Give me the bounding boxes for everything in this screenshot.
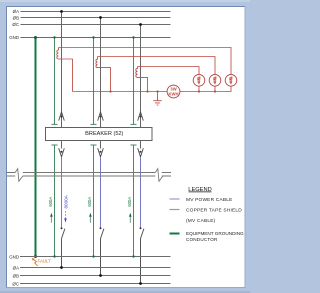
wire relay 1 drop (198, 86, 200, 92)
phase A conductor (upper) (61, 12, 63, 128)
cable termination T6 (below breaker) (138, 148, 144, 157)
svg-text:600A: 600A (127, 197, 132, 207)
legend equipment grounding conductor sample (170, 233, 180, 235)
svg-text:ØB: ØB (13, 15, 19, 20)
node main ground tap (34, 36, 37, 39)
cable termination T4 (below breaker) (59, 148, 65, 157)
svg-text:BREAKER (52): BREAKER (52) (85, 131, 123, 137)
svg-text:CONDUCTOR: CONDUCTOR (186, 237, 218, 242)
node relay 1 bus (198, 90, 200, 92)
meter M1 (kWh) (167, 85, 180, 98)
bus phase B (21, 17, 171, 19)
grounding conductor pair 1 (upper) (52, 38, 58, 125)
relay R1 (193, 75, 205, 87)
svg-text:ØA: ØA (13, 9, 19, 14)
bus GND bottom (20, 256, 171, 258)
grounding conductor pair 1 (lower) (52, 145, 58, 257)
CT shield coil 3 (136, 67, 138, 78)
CT shield coil 1 (57, 48, 59, 60)
svg-text:ØA: ØA (13, 265, 19, 270)
node shield ground tap (156, 90, 158, 92)
wire shield 2 bottom lead (98, 68, 111, 92)
switch S3 (141, 229, 144, 284)
svg-text:MV POWER CABLE: MV POWER CABLE (186, 197, 233, 203)
node main ground bottom (34, 255, 37, 258)
grounding conductor pair 3 (upper) (131, 38, 137, 125)
wire shield 2 top lead (98, 57, 216, 75)
ground shield (153, 92, 161, 106)
node phase C tap (139, 23, 142, 26)
bus phase B bottom (20, 275, 171, 277)
MV cable phase C (140, 157, 142, 227)
arrow ground continuation 3 (129, 213, 132, 223)
frame background (0, 0, 250, 293)
node phase C bottom (139, 282, 142, 285)
svg-text:8000A: 8000A (64, 194, 69, 208)
legend copper tape shield sample (170, 209, 180, 211)
bus GND top (21, 37, 171, 39)
svg-text:(MV CABLE): (MV CABLE) (186, 218, 216, 224)
cable termination T1 (above breaker) (59, 112, 65, 121)
MV cable phase B (100, 157, 102, 227)
shield circuit (red), CT coils and wiring (57, 48, 231, 106)
wire shield 1 top lead (59, 48, 232, 75)
node phase B tap (99, 16, 102, 19)
svg-text:ØC: ØC (12, 22, 19, 27)
CT shield coil 2 (96, 57, 98, 68)
node GND tap 2 (92, 36, 94, 38)
node phase A tap (60, 10, 63, 13)
bus phase A bottom (20, 267, 171, 269)
cable termination T5 (below breaker) (98, 148, 104, 157)
node phase B bottom (99, 274, 102, 277)
wire shield 3 bottom lead (138, 77, 148, 91)
equipment grounding conductor main (thick green) (35, 38, 37, 257)
bus phase A (21, 11, 171, 13)
node phase A bottom (60, 266, 63, 269)
svg-text:GND: GND (9, 35, 19, 40)
bus phase C bottom (20, 283, 171, 285)
phase C conductor (upper) (140, 25, 142, 128)
wire shield return bus (73, 86, 232, 91)
svg-text:ØB: ØB (13, 273, 19, 278)
node ground bottom 3 (132, 255, 134, 257)
node GND tap 1 (53, 36, 55, 38)
switch S1 (62, 229, 65, 268)
relay R2 (209, 75, 221, 87)
svg-text:GND: GND (9, 255, 19, 260)
arrow cable flow 1 (64, 211, 67, 223)
bus phase C (21, 24, 171, 26)
node shield bus 2 (146, 90, 148, 92)
node relay 2 bus (214, 90, 216, 92)
legend MV power cable sample (170, 198, 180, 200)
cable termination T3 (above breaker) (138, 112, 144, 121)
grounding conductor pair 2 (lower) (91, 145, 97, 257)
wire shield 1 bottom lead (59, 59, 73, 92)
phase C stub below breaker (140, 141, 142, 149)
arrow ground continuation 1 (50, 213, 53, 223)
matchline upper (7, 172, 171, 174)
drawing sheet (6, 6, 245, 288)
break symbol left (15, 169, 23, 182)
svg-text:600A: 600A (87, 197, 92, 207)
svg-text:FAULT: FAULT (38, 258, 52, 263)
node ground bottom 2 (92, 255, 94, 257)
phase A stub below breaker (61, 141, 63, 149)
fault arrow (33, 259, 37, 266)
arrow ground continuation 2 (89, 213, 92, 223)
MV cable phase A (61, 157, 63, 227)
svg-text:COPPER TAPE SHIELD: COPPER TAPE SHIELD (186, 207, 242, 213)
break symbol right (155, 169, 163, 182)
grounding conductor pair 3 (lower) (131, 145, 137, 257)
node GND tap 3 (132, 36, 134, 38)
matchline lower (7, 175, 171, 177)
switch S2 (101, 229, 104, 276)
wire shield 3 top lead (138, 67, 200, 75)
breaker 52 box (46, 128, 153, 141)
svg-text:EQUIPMENT GROUNDING: EQUIPMENT GROUNDING (186, 231, 244, 236)
phase B stub below breaker (100, 141, 102, 149)
grounding conductor pair 2 (upper) (91, 38, 97, 125)
relay R3 (225, 75, 237, 87)
svg-text:ØC: ØC (12, 281, 19, 286)
phase B conductor (upper) (100, 18, 102, 128)
svg-text:600A: 600A (48, 197, 53, 207)
node ground bottom 1 (53, 255, 55, 257)
wire relay 2 drop (214, 86, 216, 92)
cable termination T2 (above breaker) (98, 112, 104, 121)
node shield bus 1 (109, 90, 111, 92)
svg-text:KWH: KWH (168, 91, 178, 96)
